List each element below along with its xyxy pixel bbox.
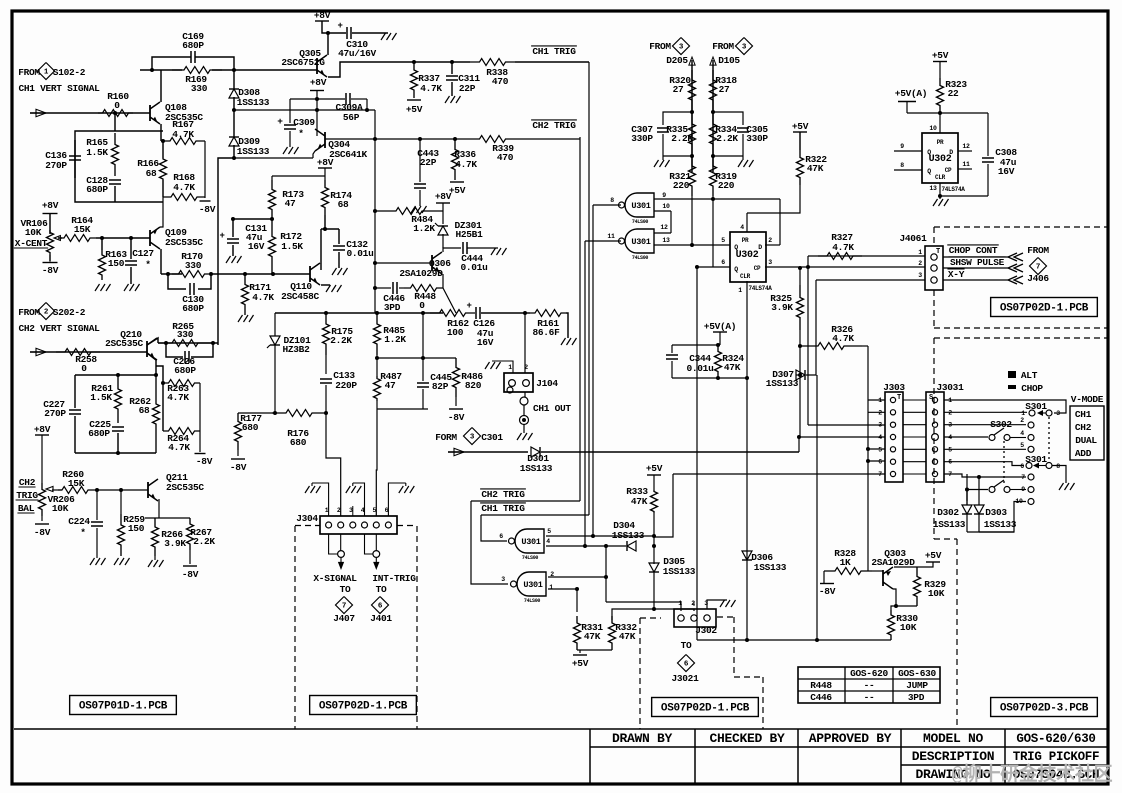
svg-text:0: 0: [114, 100, 120, 111]
svg-text:CH1: CH1: [1075, 409, 1092, 420]
svg-text:+8V: +8V: [310, 77, 327, 88]
svg-text:27: 27: [673, 84, 684, 95]
svg-text:1SS133: 1SS133: [766, 378, 799, 389]
svg-text:2: 2: [524, 364, 528, 371]
svg-text:1SS133: 1SS133: [237, 146, 270, 157]
svg-text:1: 1: [918, 249, 922, 256]
svg-text:OS07P02D-1.PCB: OS07P02D-1.PCB: [661, 703, 750, 715]
svg-text:330: 330: [185, 260, 202, 271]
svg-text:6: 6: [499, 533, 503, 540]
svg-text:22P: 22P: [459, 83, 476, 94]
svg-text:16V: 16V: [248, 241, 265, 252]
svg-text:TO: TO: [681, 640, 692, 651]
svg-text:T: T: [897, 394, 901, 402]
svg-text:+5V: +5V: [646, 463, 663, 474]
svg-text:ADD: ADD: [1075, 448, 1092, 459]
svg-text:7: 7: [1036, 264, 1040, 272]
svg-text:9: 9: [900, 143, 904, 150]
svg-text:TO: TO: [376, 584, 387, 595]
svg-text:2SC535C: 2SC535C: [166, 482, 204, 493]
svg-text:*: *: [80, 527, 85, 538]
svg-text:H25B1: H25B1: [455, 229, 483, 240]
svg-text:+8V: +8V: [435, 191, 452, 202]
svg-text:4: 4: [740, 224, 744, 231]
svg-text:3: 3: [501, 576, 505, 583]
svg-text:16V: 16V: [998, 166, 1015, 177]
svg-text:S: S: [929, 394, 933, 402]
svg-text:2SA1029D: 2SA1029D: [399, 268, 443, 279]
svg-text:S302: S302: [990, 419, 1012, 430]
svg-text:4.7K: 4.7K: [420, 83, 442, 94]
svg-text:PR: PR: [742, 237, 749, 244]
svg-text:S102-2: S102-2: [53, 67, 86, 78]
svg-text:GOS-620/630: GOS-620/630: [1016, 732, 1095, 746]
svg-text:CH1 TRIG: CH1 TRIG: [481, 503, 525, 514]
svg-text:CP: CP: [945, 167, 952, 174]
svg-text:D303: D303: [985, 507, 1007, 518]
svg-text:+8V: +8V: [34, 424, 51, 435]
svg-text:CHECKED BY: CHECKED BY: [709, 731, 785, 746]
svg-text:5: 5: [547, 528, 551, 535]
svg-text:OS07P02D-1.PCB: OS07P02D-1.PCB: [1000, 303, 1089, 315]
svg-text:SHSW PULSE: SHSW PULSE: [950, 257, 1005, 268]
svg-text:-8V: -8V: [819, 586, 836, 597]
svg-text:47: 47: [285, 198, 296, 209]
svg-text:JUMP: JUMP: [906, 680, 928, 691]
svg-text:+5V: +5V: [932, 50, 949, 61]
svg-text:270P: 270P: [45, 160, 67, 171]
svg-text:J104: J104: [536, 378, 558, 389]
svg-text:1.5K: 1.5K: [281, 241, 303, 252]
svg-text:0: 0: [419, 300, 425, 311]
svg-text:U301: U301: [631, 237, 650, 247]
svg-text:680P: 680P: [86, 184, 108, 195]
svg-text:2: 2: [691, 600, 695, 607]
svg-text:2: 2: [768, 237, 772, 244]
svg-text:8: 8: [610, 197, 614, 204]
svg-text:1.5K: 1.5K: [86, 147, 108, 158]
svg-text:D: D: [949, 149, 953, 156]
svg-text:4.7K: 4.7K: [455, 159, 477, 170]
svg-text:2SA1029D: 2SA1029D: [871, 557, 915, 568]
svg-text:47K: 47K: [584, 631, 601, 642]
svg-text:11: 11: [962, 161, 970, 168]
svg-text:GOS-620: GOS-620: [850, 668, 888, 679]
svg-text:S202-2: S202-2: [53, 307, 86, 318]
svg-text:R448: R448: [414, 291, 436, 302]
svg-text:X-Y: X-Y: [948, 269, 965, 280]
svg-text:U301: U301: [523, 580, 542, 590]
svg-text:2.2K: 2.2K: [193, 536, 215, 547]
svg-text:+5V(A): +5V(A): [704, 321, 736, 332]
svg-text:FROM: FROM: [712, 41, 734, 52]
svg-text:0.01u: 0.01u: [346, 248, 374, 259]
svg-text:CH1 VERT SIGNAL: CH1 VERT SIGNAL: [18, 83, 100, 94]
svg-text:4: 4: [1020, 430, 1024, 437]
svg-text:DESCRIPTION: DESCRIPTION: [912, 749, 995, 764]
svg-text:6: 6: [721, 259, 725, 266]
svg-text:1.5K: 1.5K: [90, 392, 112, 403]
svg-text:-8V: -8V: [42, 265, 59, 276]
svg-text:1SS133: 1SS133: [237, 97, 270, 108]
svg-text:5: 5: [1020, 442, 1024, 449]
svg-text:7: 7: [342, 603, 346, 611]
svg-text:74LS74A: 74LS74A: [748, 285, 772, 292]
svg-text:47: 47: [385, 380, 396, 391]
svg-text:2SC458C: 2SC458C: [281, 291, 319, 302]
svg-text:-8V: -8V: [448, 412, 465, 423]
svg-text:330P: 330P: [746, 133, 768, 144]
svg-text:TRIG PICKOFF: TRIG PICKOFF: [1013, 750, 1099, 764]
svg-text:C309: C309: [293, 117, 315, 128]
svg-text:4.7K: 4.7K: [832, 242, 854, 253]
svg-text:GOS-630: GOS-630: [898, 668, 936, 679]
svg-text:CHOP CONT: CHOP CONT: [949, 245, 998, 256]
svg-text:4.7K: 4.7K: [172, 129, 194, 140]
svg-text:+: +: [277, 116, 283, 127]
svg-text:4.7K: 4.7K: [168, 442, 190, 453]
svg-text:4.7K: 4.7K: [832, 333, 854, 344]
svg-text:D205: D205: [666, 55, 688, 66]
svg-text:68: 68: [338, 199, 349, 210]
svg-text:PR: PR: [937, 139, 944, 146]
svg-text:270P: 270P: [44, 408, 66, 419]
svg-text:680P: 680P: [88, 428, 110, 439]
svg-text:R448: R448: [810, 680, 832, 691]
svg-text:4.7K: 4.7K: [167, 392, 189, 403]
svg-text:1: 1: [549, 584, 553, 591]
svg-text:*: *: [298, 128, 303, 139]
svg-text:CH1 OUT: CH1 OUT: [533, 403, 571, 414]
svg-text:ALT: ALT: [1021, 370, 1038, 381]
svg-text:11: 11: [607, 233, 615, 240]
svg-text:Q: Q: [927, 168, 931, 175]
svg-text:CH1 TRIG: CH1 TRIG: [532, 46, 576, 57]
svg-text:10K: 10K: [900, 622, 917, 633]
svg-text:C224: C224: [68, 516, 90, 527]
svg-text:+: +: [466, 301, 471, 311]
svg-text:680: 680: [242, 422, 259, 433]
svg-text:8: 8: [900, 162, 904, 169]
svg-text:3.9K: 3.9K: [164, 538, 186, 549]
svg-text:D302: D302: [937, 507, 959, 518]
svg-text:-8V: -8V: [34, 527, 51, 538]
svg-text:4.7K: 4.7K: [173, 182, 195, 193]
svg-text:5: 5: [372, 507, 376, 514]
svg-text:J4061: J4061: [899, 233, 927, 244]
svg-text:J304: J304: [296, 513, 318, 524]
svg-text:-8V: -8V: [199, 204, 216, 215]
svg-text:0.01u: 0.01u: [686, 363, 714, 374]
svg-text:2.2K: 2.2K: [716, 133, 738, 144]
svg-text:15K: 15K: [68, 478, 85, 489]
svg-text:U301: U301: [631, 201, 650, 211]
svg-text:1SS133: 1SS133: [520, 463, 553, 474]
svg-text:5: 5: [878, 446, 882, 453]
svg-text:CH2: CH2: [1075, 422, 1092, 433]
svg-text:J3021: J3021: [671, 673, 699, 684]
svg-text:47K: 47K: [724, 362, 741, 373]
svg-text:10: 10: [662, 203, 670, 210]
svg-text:CH2 TRIG: CH2 TRIG: [481, 489, 525, 500]
svg-text:-8V: -8V: [230, 462, 247, 473]
svg-text:2.2K: 2.2K: [330, 335, 352, 346]
svg-text:DUAL: DUAL: [1075, 435, 1097, 446]
svg-text:3PD: 3PD: [384, 302, 401, 313]
svg-text:D105: D105: [718, 55, 740, 66]
svg-text:1: 1: [1021, 410, 1025, 417]
svg-text:FROM: FROM: [1027, 245, 1049, 256]
svg-text:OS07P02D-3.PCB: OS07P02D-3.PCB: [1000, 703, 1089, 715]
svg-text:12: 12: [962, 143, 970, 150]
svg-text:3: 3: [768, 259, 772, 266]
svg-text:+8V: +8V: [42, 200, 59, 211]
svg-text:74LS00: 74LS00: [524, 598, 541, 604]
svg-text:J406: J406: [1027, 273, 1049, 284]
svg-text:86.6F: 86.6F: [532, 327, 560, 338]
svg-text:5: 5: [721, 237, 725, 244]
svg-text:74LS00: 74LS00: [632, 255, 649, 261]
svg-text:X-CENT: X-CENT: [15, 238, 48, 249]
svg-text:47K: 47K: [807, 163, 824, 174]
svg-text:3PD: 3PD: [908, 692, 925, 703]
svg-text:T: T: [936, 248, 940, 256]
svg-text:Q: Q: [734, 266, 738, 273]
svg-text:APPROVED BY: APPROVED BY: [809, 731, 892, 746]
svg-text:S301: S301: [1025, 454, 1047, 465]
svg-text:OS07P02D-1.PCB: OS07P02D-1.PCB: [319, 701, 408, 713]
svg-text:2SC6752G: 2SC6752G: [281, 57, 325, 68]
svg-text:27: 27: [719, 84, 730, 95]
svg-text:CH2: CH2: [19, 477, 36, 488]
svg-text:10K: 10K: [25, 227, 42, 238]
svg-text:INT-TRIG: INT-TRIG: [372, 573, 416, 584]
svg-text:680P: 680P: [182, 303, 204, 314]
svg-text:15K: 15K: [74, 224, 91, 235]
svg-text:*: *: [145, 259, 150, 270]
svg-text:13: 13: [929, 185, 937, 192]
svg-text:BAL: BAL: [18, 503, 35, 514]
svg-text:9: 9: [662, 192, 666, 199]
svg-text:0.01u: 0.01u: [460, 262, 488, 273]
svg-text:MODEL NO: MODEL NO: [923, 731, 984, 746]
svg-text:8: 8: [1056, 463, 1060, 470]
svg-text:-8V: -8V: [182, 569, 199, 580]
svg-text:330: 330: [191, 83, 208, 94]
svg-text:2: 2: [918, 260, 922, 267]
svg-text:150: 150: [108, 258, 125, 269]
svg-text:7: 7: [878, 471, 882, 478]
svg-text:1SS133: 1SS133: [663, 566, 696, 577]
svg-text:74LS00: 74LS00: [632, 219, 649, 225]
svg-text:FROM: FROM: [18, 67, 40, 78]
svg-text:10K: 10K: [928, 588, 945, 599]
svg-text:OS07P01D-1.PCB: OS07P01D-1.PCB: [79, 701, 168, 713]
svg-text:Q: Q: [734, 244, 738, 251]
svg-text:+8V: +8V: [317, 157, 334, 168]
svg-text:+8V: +8V: [314, 10, 331, 21]
svg-text:TO: TO: [340, 584, 351, 595]
svg-text:+: +: [219, 231, 224, 241]
svg-text:J302: J302: [695, 625, 717, 636]
svg-text:FROM: FROM: [649, 41, 671, 52]
svg-text:CH2 VERT SIGNAL: CH2 VERT SIGNAL: [18, 323, 100, 334]
svg-text:22P: 22P: [420, 157, 437, 168]
svg-text:1SS133: 1SS133: [933, 519, 966, 530]
svg-text:47u/16V: 47u/16V: [338, 48, 376, 59]
svg-text:82P: 82P: [432, 381, 449, 392]
svg-text:1SS133: 1SS133: [984, 519, 1017, 530]
svg-text:-8V: -8V: [196, 456, 213, 467]
svg-text:+5V: +5V: [449, 185, 466, 196]
svg-text:@柳十研金技术社区: @柳十研金技术社区: [952, 762, 1113, 786]
svg-text:74LS00: 74LS00: [522, 555, 539, 561]
svg-text:680P: 680P: [182, 40, 204, 51]
svg-text:13: 13: [662, 237, 670, 244]
svg-text:2: 2: [337, 507, 341, 514]
svg-text:68: 68: [146, 168, 157, 179]
svg-text:+5V: +5V: [572, 658, 589, 669]
svg-text:1.2K: 1.2K: [384, 334, 406, 345]
svg-text:CLR: CLR: [935, 174, 946, 181]
svg-text:+5V: +5V: [792, 121, 809, 132]
svg-text:74LS74A: 74LS74A: [941, 186, 965, 193]
svg-text:1K: 1K: [840, 557, 851, 568]
svg-text:C127: C127: [132, 248, 154, 259]
svg-text:330P: 330P: [631, 133, 653, 144]
svg-text:C301: C301: [481, 432, 503, 443]
svg-text:--: --: [864, 692, 875, 703]
svg-text:680P: 680P: [174, 365, 196, 376]
svg-text:220P: 220P: [335, 380, 357, 391]
svg-text:22: 22: [948, 88, 959, 99]
svg-text:7: 7: [1021, 474, 1025, 481]
svg-text:680: 680: [290, 437, 307, 448]
svg-text:HZ3B2: HZ3B2: [282, 344, 310, 355]
svg-text:9: 9: [1021, 486, 1025, 493]
svg-text:DRAWN BY: DRAWN BY: [612, 731, 673, 746]
svg-text:12: 12: [660, 224, 668, 231]
svg-text:4.7K: 4.7K: [252, 292, 274, 303]
svg-text:1.2K: 1.2K: [413, 223, 435, 234]
svg-text:16V: 16V: [477, 337, 494, 348]
svg-text:V-MODE: V-MODE: [1071, 394, 1104, 405]
svg-text:C446: C446: [810, 692, 832, 703]
svg-text:--: --: [864, 680, 875, 691]
svg-text:J401: J401: [370, 613, 392, 624]
svg-text:CLR: CLR: [740, 273, 751, 280]
svg-text:U302: U302: [736, 250, 759, 261]
svg-text:0: 0: [81, 363, 87, 374]
svg-text:220: 220: [718, 180, 735, 191]
svg-text:CP: CP: [754, 265, 761, 272]
svg-text:56P: 56P: [343, 112, 360, 123]
svg-text:CHOP: CHOP: [1021, 383, 1043, 394]
svg-text:150: 150: [128, 523, 145, 534]
svg-text:10K: 10K: [52, 503, 69, 514]
svg-text:47K: 47K: [619, 631, 636, 642]
svg-text:470: 470: [497, 152, 514, 163]
svg-text:220: 220: [673, 180, 690, 191]
svg-text:6: 6: [1020, 463, 1024, 470]
svg-text:820: 820: [465, 380, 482, 391]
svg-text:6: 6: [878, 459, 882, 466]
svg-text:CH2 TRIG: CH2 TRIG: [532, 120, 576, 131]
svg-text:3: 3: [918, 272, 922, 279]
svg-text:10: 10: [929, 125, 937, 132]
svg-text:TRIG: TRIG: [16, 490, 38, 501]
svg-text:+: +: [337, 21, 342, 31]
svg-text:330: 330: [177, 329, 194, 340]
svg-text:+5V: +5V: [406, 104, 423, 115]
svg-text:2.2K: 2.2K: [671, 133, 693, 144]
svg-text:U301: U301: [521, 537, 540, 547]
svg-text:2SC641K: 2SC641K: [329, 149, 367, 160]
svg-text:1: 1: [508, 364, 512, 371]
svg-text:2SC535C: 2SC535C: [105, 338, 143, 349]
svg-text:2SC535C: 2SC535C: [165, 237, 203, 248]
svg-text:470: 470: [492, 76, 509, 87]
svg-text:47K: 47K: [631, 496, 648, 507]
svg-text:Q: Q: [927, 149, 931, 156]
svg-text:68: 68: [139, 405, 150, 416]
svg-text:J407: J407: [333, 613, 355, 624]
svg-text:1SS133: 1SS133: [754, 562, 787, 573]
svg-text:+5V(A): +5V(A): [895, 88, 927, 99]
svg-text:X-SIGNAL: X-SIGNAL: [313, 573, 357, 584]
svg-text:100: 100: [447, 327, 464, 338]
svg-text:S301: S301: [1025, 401, 1047, 412]
svg-text:2: 2: [1020, 417, 1024, 424]
svg-text:+5V: +5V: [925, 550, 942, 561]
svg-text:3.9K: 3.9K: [771, 302, 793, 313]
svg-text:1SS133: 1SS133: [612, 530, 645, 541]
svg-text:4: 4: [546, 538, 550, 545]
svg-text:FORM: FORM: [435, 432, 457, 443]
svg-text:D: D: [758, 244, 762, 251]
svg-text:3: 3: [1056, 410, 1060, 417]
svg-text:1: 1: [738, 287, 742, 294]
svg-text:FROM: FROM: [18, 307, 40, 318]
